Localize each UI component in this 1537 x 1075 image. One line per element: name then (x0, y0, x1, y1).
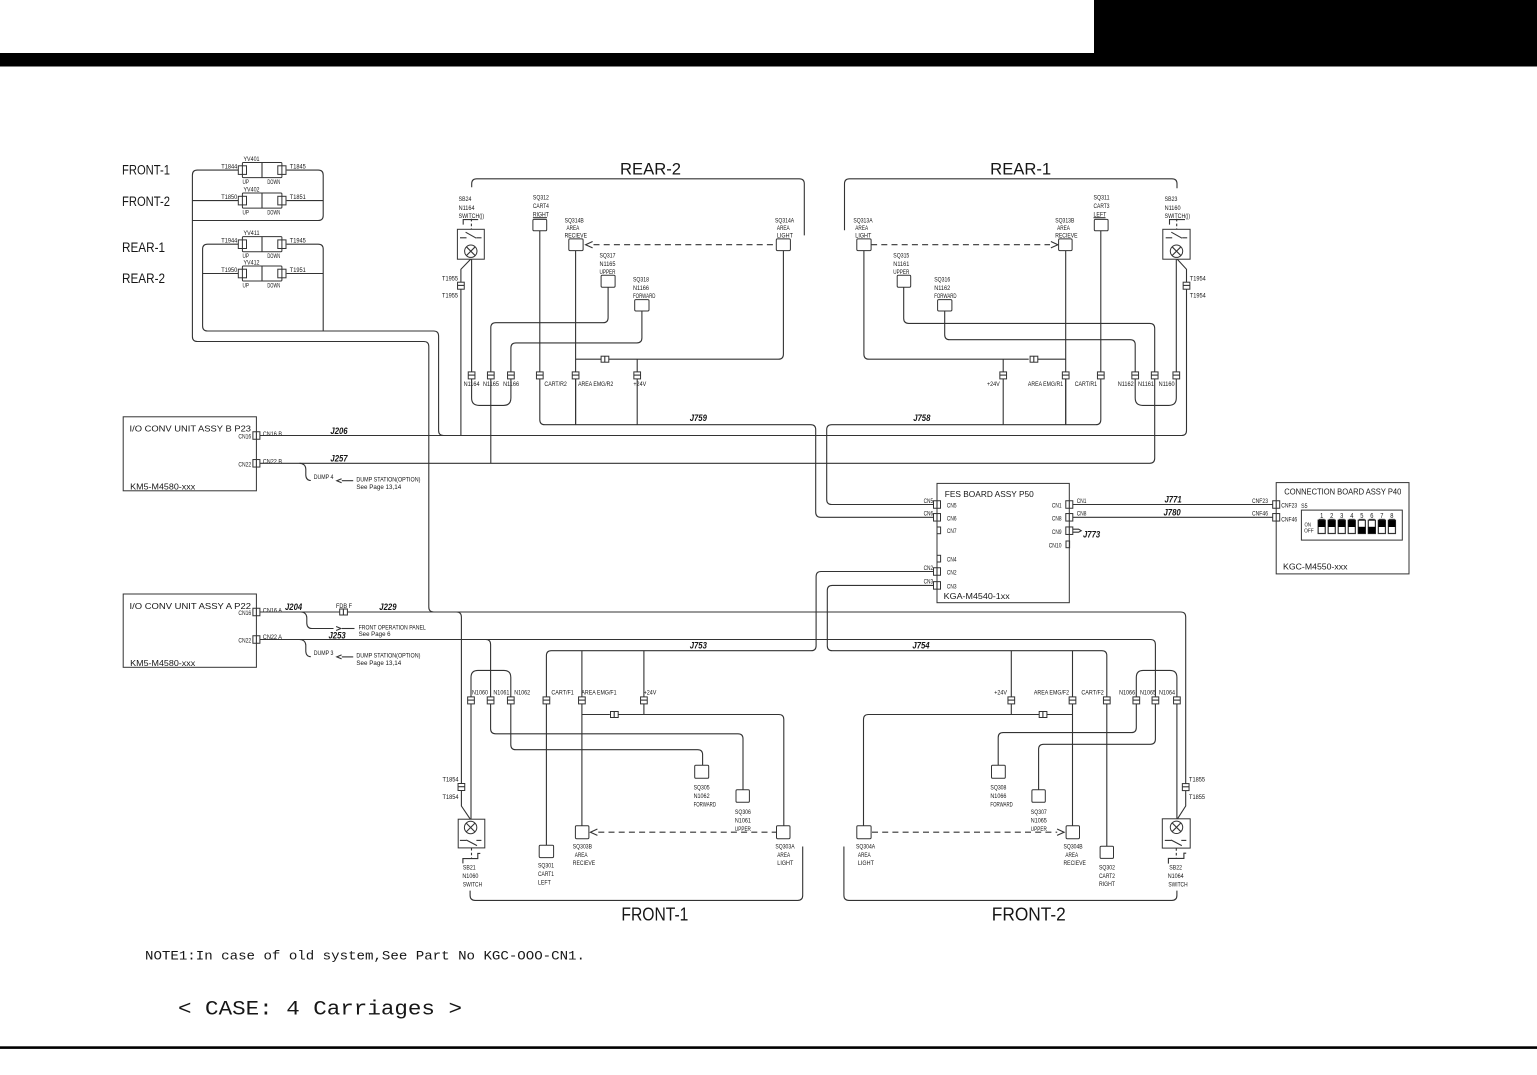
dashed optical beam SQ303A to SQ303B (590, 829, 597, 835)
svg-text:CN22: CN22 (238, 638, 251, 645)
svg-text:N1064: N1064 (1159, 689, 1175, 696)
svg-text:T1945: T1945 (290, 238, 306, 245)
svg-text:CN22: CN22 (238, 461, 251, 468)
inline connector on +24V branch (rear-2) (601, 356, 609, 362)
svg-text:UP: UP (243, 282, 250, 289)
connector +24V (front-2) (1008, 697, 1015, 704)
svg-text:SQ306: SQ306 (735, 809, 751, 816)
connector CN6 (934, 514, 941, 522)
svg-text:DOWN: DOWN (267, 253, 280, 260)
svg-text:SB24: SB24 (459, 196, 472, 203)
connector CN9 with J773 stub arrow (1066, 527, 1073, 535)
connector +24V (rear-2) (634, 372, 641, 379)
svg-text:CN16 A: CN16 A (263, 608, 283, 615)
svg-text:FRONT-2: FRONT-2 (122, 194, 170, 209)
connector N1064 (front-2) (1174, 697, 1181, 704)
wire T1854 to SB21 (461, 791, 470, 820)
photo sensor SQ302 CART2 RIGHT (1100, 846, 1113, 858)
branch T1854 from J229 (456, 612, 461, 784)
svg-text:N1162: N1162 (1118, 381, 1134, 388)
svg-text:T1950: T1950 (221, 267, 237, 274)
svg-text:N1065: N1065 (1031, 817, 1047, 824)
svg-text:I/O CONV UNIT ASSY B P23: I/O CONV UNIT ASSY B P23 (130, 424, 252, 434)
svg-text:See Page 13,14: See Page 13,14 (356, 484, 401, 491)
svg-text:RECIEVE: RECIEVE (1064, 860, 1087, 867)
svg-text:SQ314B: SQ314B (565, 217, 585, 224)
wire +24V (rear-1) up to branch (1002, 359, 1004, 372)
svg-text:YV401: YV401 (244, 156, 260, 163)
photo sensor SQ306 N1061 UPPER (736, 790, 749, 803)
wire J754 bus CART/F2 to CN3 (827, 585, 1107, 846)
svg-text:SQ313A: SQ313A (853, 217, 873, 224)
svg-text:N1062: N1062 (694, 793, 710, 800)
svg-text:LEFT: LEFT (538, 880, 551, 887)
svg-text:< CASE: 4 Carriages >: < CASE: 4 Carriages > (178, 999, 462, 1022)
wire T1844 left to front bus (192, 170, 433, 612)
FES BOARD ASSY P50 box (937, 483, 1069, 602)
svg-text:+24V: +24V (987, 381, 1000, 388)
svg-text:UPPER: UPPER (1031, 826, 1047, 833)
connector AREA EMG/R2 (rear-2) (572, 372, 579, 379)
switch/lamp unit SB23 (1163, 229, 1190, 259)
svg-text:AREA EMG/R1: AREA EMG/R1 (1028, 381, 1063, 388)
svg-text:AREA: AREA (1057, 225, 1070, 232)
connector +24V (front-1) (641, 697, 648, 704)
svg-text:J204: J204 (285, 602, 302, 612)
svg-text:SB22: SB22 (1169, 865, 1182, 872)
svg-text:J753: J753 (690, 640, 707, 650)
connector CN8 (1066, 514, 1073, 522)
connector CN1 (1066, 501, 1073, 509)
svg-text:N1065: N1065 (1140, 689, 1156, 696)
svg-text:CN16: CN16 (238, 434, 251, 441)
svg-text:CART3: CART3 (1094, 203, 1110, 210)
svg-text:See Page 13,14: See Page 13,14 (356, 660, 401, 667)
svg-text:CN2: CN2 (947, 570, 957, 577)
svg-text:CNF46: CNF46 (1252, 511, 1268, 518)
terminal T1955 (458, 282, 465, 289)
wire N1062 to SQ305 (511, 704, 703, 765)
svg-text:T1844: T1844 (221, 164, 237, 171)
svg-text:N1161: N1161 (893, 261, 909, 268)
svg-text:SWITCH(|): SWITCH(|) (1165, 213, 1191, 220)
svg-text:RECIEVE: RECIEVE (573, 860, 596, 867)
svg-text:YV402: YV402 (244, 186, 260, 193)
wire +24V (front-1) from bus to branch (643, 651, 645, 715)
N106x merge (front-2) from J253 (1136, 670, 1155, 697)
svg-text:N1066: N1066 (990, 793, 1006, 800)
connector N1160 (rear-1) (1173, 372, 1180, 379)
svg-text:FORWARD: FORWARD (694, 801, 717, 808)
svg-text:N1060: N1060 (472, 689, 488, 696)
svg-text:CN4: CN4 (947, 557, 957, 564)
svg-text:T1855: T1855 (1189, 777, 1205, 784)
svg-text:T1955: T1955 (442, 275, 458, 282)
svg-text:SQ305: SQ305 (694, 784, 710, 791)
wire SQ317 to N1165 connector (491, 287, 608, 372)
svg-text:SQ315: SQ315 (893, 253, 909, 260)
svg-text:AREA: AREA (1065, 852, 1078, 859)
wire SB24 to N1164 connector (471, 259, 473, 372)
svg-text:AREA: AREA (777, 225, 790, 232)
svg-text:SQ318: SQ318 (633, 277, 649, 284)
svg-text:UPPER: UPPER (735, 826, 751, 833)
svg-text:DOWN: DOWN (267, 179, 280, 186)
svg-text:CNF23: CNF23 (1281, 503, 1297, 510)
terminal T1855 (1182, 784, 1189, 791)
svg-text:CN22 B: CN22 B (263, 459, 283, 466)
svg-text:J780: J780 (1164, 507, 1182, 517)
solenoid valve YV411 with terminals T1944/T1945 (242, 237, 282, 252)
connector CN22 (P23) (253, 460, 260, 468)
wire AREA EMG/F2 from J754 bus to SQ304B (1072, 651, 1074, 826)
wire SB23 to T1954 (1177, 259, 1186, 282)
svg-text:CNF46: CNF46 (1281, 516, 1297, 523)
svg-text:N1161: N1161 (1138, 381, 1154, 388)
svg-text:CN16: CN16 (238, 610, 251, 617)
svg-text:J257: J257 (330, 454, 348, 464)
branch wire to AREA EMG/R2 vertical (576, 358, 602, 360)
svg-text:CN10: CN10 (1049, 543, 1062, 550)
svg-text:T1845: T1845 (290, 164, 306, 171)
svg-text:LIGHT: LIGHT (858, 860, 874, 867)
wire SQ312 to CART/R2 connector (539, 231, 541, 372)
svg-text:CN6: CN6 (924, 511, 934, 518)
connector N1164 (rear-2) (468, 372, 475, 379)
svg-text:J754: J754 (912, 640, 929, 650)
I/O CONV UNIT ASSY B P23 box (123, 417, 256, 491)
wire N1065 to SQ307 (1039, 704, 1156, 790)
wire SB24 to T1955 (461, 259, 471, 282)
svg-text:FDB F: FDB F (336, 603, 352, 610)
solenoid valve YV412 with terminals T1950/T1951 (242, 266, 282, 281)
wire T1851 right (287, 200, 324, 202)
svg-text:CART/F2: CART/F2 (1081, 689, 1104, 696)
svg-text:SB23: SB23 (1165, 196, 1178, 203)
svg-text:CN9: CN9 (1052, 529, 1062, 536)
wire T1945 right (287, 244, 324, 331)
svg-text:N1061: N1061 (493, 689, 509, 696)
svg-text:FORWARD: FORWARD (990, 801, 1013, 808)
svg-text:KGA-M4540-1xx: KGA-M4540-1xx (944, 591, 1011, 601)
svg-text:J253: J253 (329, 631, 346, 641)
inline connector FDB F (340, 609, 348, 615)
svg-text:SB21: SB21 (463, 865, 476, 872)
svg-text:T1850: T1850 (221, 194, 237, 201)
photo sensor SQ303A AREA LIGHT (777, 826, 791, 839)
wire CART/R1 to J758 bus and CN5 (827, 379, 1101, 505)
bottom rule line (0, 1046, 1537, 1049)
svg-text:AREA: AREA (777, 852, 790, 859)
inline connector on +24V branch (rear-1) (1030, 356, 1038, 362)
switch/lamp unit SB22 (1162, 819, 1190, 848)
wire J753 bus CART/F1 to CN2 (546, 572, 933, 846)
wire T1845 right + U return (192, 170, 323, 220)
svg-text:CN3: CN3 (947, 584, 957, 591)
svg-text:CNF23: CNF23 (1252, 498, 1268, 505)
svg-text:+24V: +24V (644, 689, 657, 696)
svg-text:FRONT-2: FRONT-2 (992, 904, 1066, 925)
svg-text:CN3: CN3 (924, 579, 934, 586)
wire AREA EMG/F1 from J753 bus to SQ303B (581, 651, 583, 826)
svg-text:SQ304B: SQ304B (1064, 844, 1084, 851)
svg-text:REAR-2: REAR-2 (620, 160, 681, 178)
svg-text:UP: UP (243, 209, 250, 216)
connector N1162 (rear-1) (1132, 372, 1139, 379)
svg-text:SQ304A: SQ304A (856, 844, 876, 851)
svg-text:CN8: CN8 (1052, 515, 1062, 522)
svg-text:REAR-2: REAR-2 (122, 271, 165, 286)
wire SQ311 to CART/R1 connector (1100, 231, 1102, 372)
wire CART/R2 to J759 bus and CN6 (540, 379, 934, 517)
dashed optical beam SQ314A to SQ314B (586, 242, 593, 248)
wire AREA EMG/R2 to J759 bus (575, 379, 577, 425)
wire +24V (front-2) from bus to branch (1010, 651, 1012, 715)
wire SQ314B down through AREA EMG/R2 to J759 bus (575, 251, 577, 425)
photo sensor SQ307 N1065 UPPER (1032, 790, 1045, 803)
FRONT-2 section bracket (844, 847, 1177, 901)
+24V branch with inline connector to SQ303A (582, 714, 610, 716)
svg-text:YV412: YV412 (244, 259, 260, 266)
connector CN22 (P22) (253, 636, 260, 644)
wire +24V (rear-1) to J758 bus (1002, 379, 1004, 425)
svg-text:SQ303B: SQ303B (573, 844, 593, 851)
svg-text:CN5: CN5 (924, 498, 934, 505)
svg-text:J206: J206 (330, 426, 348, 436)
svg-text:NOTE1:In case of old system,Se: NOTE1:In case of old system,See Part No … (145, 949, 585, 964)
svg-text:DUMP STATION(OPTION): DUMP STATION(OPTION) (356, 476, 420, 483)
svg-text:DOWN: DOWN (267, 209, 280, 216)
connector N1165 (rear-2) (487, 372, 494, 379)
svg-text:J229: J229 (379, 602, 397, 612)
wire N1064 to SB22 (1176, 704, 1178, 819)
svg-text:CN1: CN1 (1077, 498, 1087, 505)
svg-text:SQ307: SQ307 (1031, 809, 1047, 816)
wire T1944 left to rear bus (203, 244, 444, 435)
branch DUMP 4 to dump station (300, 463, 311, 480)
switch/lamp unit SB21 (458, 819, 485, 848)
svg-text:KM5-M4580-xxx: KM5-M4580-xxx (130, 481, 196, 491)
svg-text:+24V: +24V (633, 381, 646, 388)
svg-text:AREA: AREA (855, 225, 868, 232)
svg-text:N1066: N1066 (1119, 689, 1135, 696)
svg-text:AREA EMG/F1: AREA EMG/F1 (581, 689, 616, 696)
wire SQ318 to N1166 connector (511, 311, 642, 372)
svg-text:SWITCH: SWITCH (463, 882, 482, 889)
svg-text:SQ301: SQ301 (538, 863, 554, 870)
svg-text:ON: ON (1305, 522, 1311, 528)
svg-text:CN8: CN8 (1077, 511, 1087, 518)
wire T1850 left (192, 200, 238, 202)
svg-text:DOWN: DOWN (267, 282, 280, 289)
top black banner bar (0, 53, 1537, 67)
connector CART/R1 (rear-1) (1097, 372, 1104, 379)
connector CN4 (937, 555, 941, 562)
svg-text:T1954: T1954 (1190, 275, 1206, 282)
connector CNF46 (1273, 514, 1280, 522)
wire T1954 down to J206 end (1186, 289, 1188, 430)
connector CN10 (1066, 541, 1070, 548)
svg-text:CART4: CART4 (533, 203, 549, 210)
svg-text:CN2: CN2 (924, 565, 934, 572)
svg-text:CONNECTION BOARD ASSY P40: CONNECTION BOARD ASSY P40 (1284, 488, 1401, 497)
dashed optical beam SQ304A to SQ304B (872, 831, 1057, 833)
svg-text:T1851: T1851 (290, 194, 306, 201)
connector CN7 (937, 527, 941, 534)
svg-text:SWITCH: SWITCH (1168, 882, 1187, 889)
svg-text:J759: J759 (690, 413, 708, 423)
svg-text:T1854: T1854 (443, 794, 459, 801)
svg-text:REAR-1: REAR-1 (990, 160, 1051, 178)
wire J204 / J229 to front sections (260, 612, 1186, 784)
top-right black block (1094, 0, 1537, 67)
wire +24V connector up to branch (636, 359, 638, 372)
svg-text:CART2: CART2 (1099, 873, 1115, 880)
svg-text:UP: UP (243, 179, 250, 186)
wire N1066 to SQ308 (998, 704, 1136, 765)
N106x merge from J253 (486, 640, 491, 697)
svg-text:SQ314A: SQ314A (775, 217, 795, 224)
wire SQ313A to +24V branch (rear-1) (864, 251, 1029, 360)
branch wire to AREA EMG/R1 vertical (1038, 358, 1066, 360)
solenoid valve YV402 with terminals T1850/T1851 (242, 193, 282, 208)
svg-text:N1062: N1062 (514, 689, 530, 696)
svg-text:DUMP 4: DUMP 4 (314, 474, 334, 481)
connector N1065 (front-2) (1152, 697, 1159, 704)
connector CART/F1 (front-1) (543, 697, 550, 704)
svg-text:CART/F1: CART/F1 (551, 689, 574, 696)
connector CART/R2 (rear-2) (536, 372, 543, 379)
branch DUMP 3 to dump station (300, 640, 311, 657)
svg-text:T1955: T1955 (442, 293, 458, 300)
svg-text:SQ311: SQ311 (1094, 195, 1110, 202)
svg-text:CN22 A: CN22 A (263, 634, 283, 641)
svg-text:CN6: CN6 (947, 515, 957, 522)
svg-text:T1855: T1855 (1189, 794, 1205, 801)
svg-text:AREA EMG/R2: AREA EMG/R2 (578, 381, 613, 388)
svg-text:AREA: AREA (575, 852, 588, 859)
svg-text:SQ316: SQ316 (934, 277, 950, 284)
dashed optical beam SQ313A to SQ313B (871, 244, 1050, 246)
FRONT-1 section bracket (470, 847, 803, 901)
svg-text:KGC-M4550-xxx: KGC-M4550-xxx (1283, 561, 1348, 571)
switch/lamp unit SB24 (457, 229, 484, 259)
wire AREA EMG/R1 to J758 bus (1065, 379, 1067, 425)
branch to front operation panel (301, 612, 334, 629)
wire T1955 down to J206 (460, 289, 462, 435)
svg-text:SQ302: SQ302 (1099, 864, 1115, 871)
wire +24V to J759 bus (636, 379, 638, 425)
svg-text:CART/R2: CART/R2 (544, 381, 567, 388)
wire SQ313B down through AREA EMG/R1 to J758 bus (1065, 251, 1067, 425)
wire SB23 to N1160 connector (1175, 259, 1177, 372)
svg-text:SQ317: SQ317 (600, 253, 616, 260)
svg-text:CART/R1: CART/R1 (1075, 381, 1098, 388)
svg-text:AREA: AREA (567, 225, 580, 232)
wire T1855 to SB22 (1178, 791, 1186, 819)
photo sensor SQ304B AREA RECIEVE (1066, 826, 1079, 839)
svg-text:SWITCH(|): SWITCH(|) (459, 213, 485, 220)
svg-text:CN16 B: CN16 B (263, 431, 283, 438)
N116x merge to J257 (472, 379, 491, 406)
solenoid valve YV401 with terminals T1844/T1845 (242, 163, 282, 178)
svg-text:KM5-M4580-xxx: KM5-M4580-xxx (130, 658, 196, 668)
svg-text:LIGHT: LIGHT (777, 860, 793, 867)
connector N1060 (front-1) (468, 697, 475, 704)
connector AREA EMG/F1 (front-1) (579, 697, 586, 704)
wire J253 to front sections (260, 640, 1156, 671)
svg-text:CN5: CN5 (947, 503, 957, 510)
photo sensor SQ301 CART1 LEFT (539, 845, 553, 857)
svg-text:N1162: N1162 (934, 285, 950, 292)
svg-text:S5: S5 (1301, 503, 1308, 510)
svg-text:J773: J773 (1083, 530, 1100, 540)
svg-text:SQ312: SQ312 (533, 195, 549, 202)
REAR-2 section bracket (472, 179, 805, 236)
wire SQ315 to N1161 connector (904, 287, 1155, 372)
connector CART/F2 (front-2) (1103, 697, 1110, 704)
connector CN16 (P22) (253, 608, 260, 616)
svg-text:N1160: N1160 (1165, 205, 1181, 212)
svg-text:T1951: T1951 (290, 267, 306, 274)
photo sensor SQ304A AREA LIGHT (857, 826, 871, 839)
svg-text:CN7: CN7 (947, 528, 957, 535)
svg-text:T1944: T1944 (221, 238, 237, 245)
svg-text:SQ303A: SQ303A (775, 844, 795, 851)
wire J780 CN8 to CNF46 (1073, 516, 1273, 518)
svg-text:T1954: T1954 (1190, 293, 1206, 300)
svg-text:N1061: N1061 (735, 817, 751, 824)
svg-text:FRONT-1: FRONT-1 (122, 163, 170, 178)
connector N1066 (front-2) (1133, 697, 1140, 704)
connector +24V (rear-1) (1000, 372, 1007, 379)
connector N1161 (rear-1) (1151, 372, 1158, 379)
svg-text:N1060: N1060 (462, 873, 478, 880)
svg-text:J758: J758 (913, 413, 931, 423)
svg-text:OFF: OFF (1304, 529, 1314, 535)
svg-text:N1166: N1166 (633, 285, 649, 292)
I/O CONV UNIT ASSY A P22 box (123, 594, 256, 667)
connector CN5 (934, 501, 941, 509)
svg-text:See Page 6: See Page 6 (359, 631, 391, 638)
svg-text:FRONT-1: FRONT-1 (621, 904, 688, 925)
svg-text:SQ313B: SQ313B (1055, 217, 1075, 224)
photo sensor SQ305 N1062 FORWARD (695, 765, 709, 778)
connector N1061 (front-1) (487, 697, 494, 704)
connector N1166 (rear-2) (508, 372, 515, 379)
connector N1062 (front-1) (507, 697, 514, 704)
svg-text:SQ308: SQ308 (990, 784, 1006, 791)
photo sensor SQ303B AREA RECIEVE (575, 826, 589, 839)
svg-text:+24V: +24V (994, 689, 1007, 696)
svg-text:I/O CONV UNIT ASSY A P22: I/O CONV UNIT ASSY A P22 (130, 601, 252, 611)
wire J206 (260, 435, 1182, 437)
svg-text:AREA EMG/F2: AREA EMG/F2 (1034, 689, 1069, 696)
wire T1950 left (203, 273, 239, 275)
wire N1061 to SQ306 (491, 704, 743, 790)
connector CN2 (934, 568, 941, 576)
svg-text:T1854: T1854 (443, 777, 459, 784)
REAR-1 section bracket (845, 179, 1178, 231)
svg-text:DUMP 3: DUMP 3 (314, 650, 334, 657)
svg-text:DUMP STATION(OPTION): DUMP STATION(OPTION) (356, 653, 420, 660)
svg-text:REAR-1: REAR-1 (122, 240, 165, 255)
svg-text:CART1: CART1 (538, 871, 554, 878)
svg-text:YV411: YV411 (244, 230, 260, 237)
+24V branch with inline connector to SQ304A (1047, 714, 1073, 716)
svg-text:N1064: N1064 (1168, 873, 1184, 880)
CONNECTION BOARD ASSY P40 box (1276, 483, 1409, 574)
